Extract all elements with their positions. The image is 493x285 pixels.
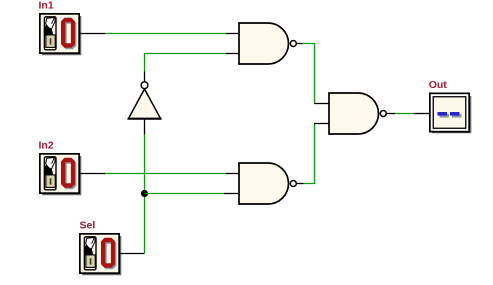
pin Sel output [120, 253, 145, 255]
pin U1 input 2 [226, 53, 240, 55]
svg-text:Out: Out [429, 79, 448, 91]
pin U2 input 1 [226, 173, 240, 175]
NAND gate U1 [239, 23, 296, 64]
wire In1 to U1 pin 1 [105, 33, 226, 35]
svg-text:In2: In2 [39, 140, 54, 152]
input switch In1 [40, 14, 81, 55]
pin inverter input [144, 118, 146, 135]
pin U1 input 1 [226, 33, 240, 35]
pin U3 input 2 [314, 123, 330, 125]
wire U1 to U3 pin 1 [303, 44, 315, 104]
pin inverter output [144, 72, 146, 82]
wire U2 to U3 pin 2 [304, 124, 315, 184]
pin U3 input 1 [314, 103, 330, 105]
wire inverter to U1 pin 2 [145, 54, 227, 72]
input switch In2 [40, 154, 81, 195]
wire junction to U2 pin 2 [145, 193, 225, 195]
pin In1 output [80, 33, 105, 35]
pin In2 output [80, 173, 105, 175]
input switch Sel [80, 234, 121, 275]
pin Out input [414, 113, 429, 115]
NAND gate U3 [329, 93, 386, 134]
NAND gate U2 [239, 163, 296, 204]
pin U3 output [387, 113, 395, 115]
svg-text:In1: In1 [39, 0, 54, 12]
pin U2 output [297, 183, 304, 185]
wire Sel vertical to junction and inverter [144, 135, 146, 254]
wire U3 to Out [395, 113, 414, 115]
inverter U4 [128, 82, 162, 119]
output display Out [430, 93, 471, 132]
pin U1 output [297, 43, 303, 45]
junction node [141, 190, 148, 197]
svg-text:Sel: Sel [80, 220, 96, 232]
wire In2 to U2 pin 1 [105, 173, 226, 175]
pin U2 input 2 [224, 193, 240, 195]
